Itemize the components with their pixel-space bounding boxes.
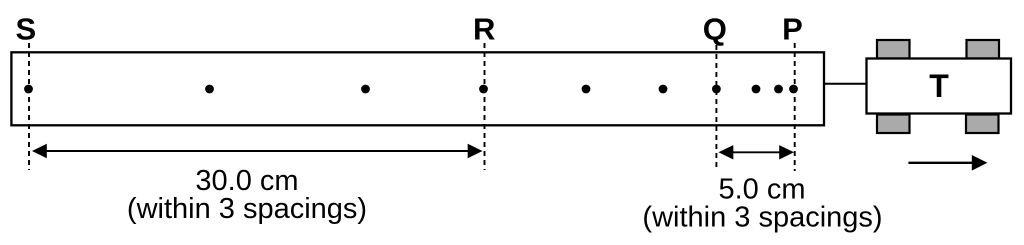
- svg-text:R: R: [473, 12, 495, 47]
- svg-text:P: P: [782, 12, 803, 47]
- svg-text:(within 3 spacings): (within 3 spacings): [642, 201, 882, 233]
- svg-text:(within 3 spacings): (within 3 spacings): [127, 193, 367, 225]
- svg-text:T: T: [929, 68, 949, 104]
- svg-text:S: S: [15, 12, 36, 47]
- svg-text:Q: Q: [703, 12, 727, 47]
